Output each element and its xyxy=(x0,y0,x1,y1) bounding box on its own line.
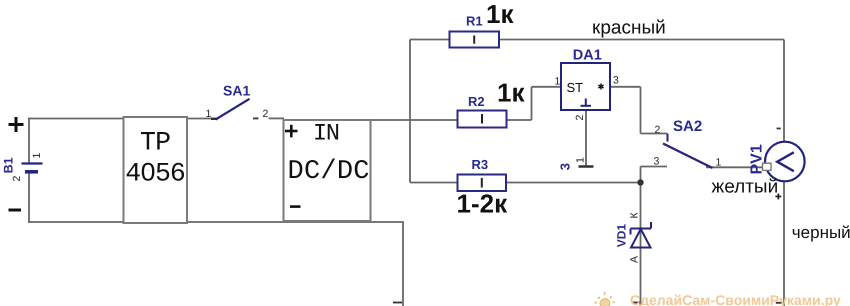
svg-text:1: 1 xyxy=(206,108,212,120)
svg-text:PV1: PV1 xyxy=(749,144,766,174)
svg-text:DA1: DA1 xyxy=(573,48,602,64)
svg-text:ST: ST xyxy=(567,80,584,95)
svg-text:4056: 4056 xyxy=(125,159,186,189)
svg-text:SA1: SA1 xyxy=(223,83,250,99)
svg-text:VD1: VD1 xyxy=(615,224,629,248)
svg-text:IN: IN xyxy=(313,121,340,148)
svg-text:DC/DC: DC/DC xyxy=(288,157,370,187)
svg-text:B1: B1 xyxy=(2,157,16,173)
svg-text:2: 2 xyxy=(655,124,661,136)
svg-text:2: 2 xyxy=(263,108,269,120)
svg-text:1к: 1к xyxy=(486,0,514,29)
svg-text:2: 2 xyxy=(574,115,586,121)
svg-text:1: 1 xyxy=(716,157,722,169)
svg-text:R2: R2 xyxy=(468,94,485,109)
svg-text:1-2к: 1-2к xyxy=(457,189,509,219)
svg-text:2: 2 xyxy=(11,176,23,182)
svg-text:3: 3 xyxy=(654,156,660,168)
svg-text:3: 3 xyxy=(558,163,573,170)
svg-text:1: 1 xyxy=(31,153,43,159)
svg-text:A: A xyxy=(629,256,641,263)
svg-text:красный: красный xyxy=(592,18,666,39)
svg-text:R3: R3 xyxy=(472,157,489,172)
svg-text:желтый: желтый xyxy=(712,177,779,198)
svg-text:К: К xyxy=(629,212,641,219)
svg-text:3: 3 xyxy=(613,75,619,87)
svg-text:1к: 1к xyxy=(497,78,525,108)
svg-text:TP: TP xyxy=(140,128,171,158)
svg-text:R1: R1 xyxy=(466,14,483,29)
svg-text:SA2: SA2 xyxy=(673,118,702,135)
svg-text:черный: черный xyxy=(792,223,850,242)
svg-text:СделайСам-СвоимиРуками.ру: СделайСам-СвоимиРуками.ру xyxy=(630,292,841,306)
svg-text:1: 1 xyxy=(575,157,587,163)
svg-text:1: 1 xyxy=(555,76,561,88)
